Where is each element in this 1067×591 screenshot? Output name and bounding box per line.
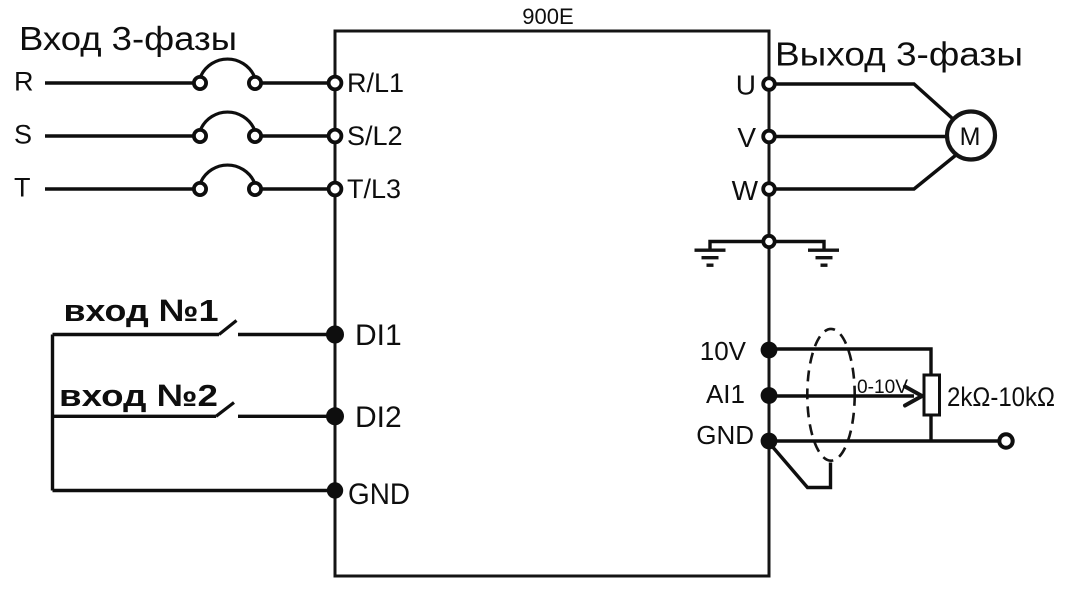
svg-text:M: M [960, 123, 981, 151]
wire U to motor [775, 84, 953, 119]
svg-text:DI2: DI2 [355, 401, 402, 434]
earth terminal node [763, 236, 774, 247]
wire DI2 left [53, 415, 217, 418]
svg-text:0-10V: 0-10V [857, 377, 908, 398]
wire earth right [775, 242, 824, 250]
svg-text:V: V [737, 122, 756, 153]
wire DI1 left [53, 333, 220, 336]
terminal DI2 [326, 407, 344, 425]
ground symbol right [808, 250, 839, 265]
potentiometer RP1 [924, 375, 940, 415]
wire DI1 right [238, 333, 335, 336]
switch S2 lever [216, 403, 234, 417]
terminal T/L3 [329, 183, 342, 196]
wire T to breaker [45, 187, 194, 190]
wire potentiometer bottom [929, 415, 932, 441]
svg-text:вход №2: вход №2 [59, 378, 218, 413]
switch S1 lever [219, 321, 237, 335]
wire common return (left bus) [51, 335, 54, 491]
arrow head [905, 387, 922, 406]
wire shield drain to GND [771, 445, 831, 488]
wire S to breaker [45, 134, 194, 137]
svg-text:Вход 3-фазы: Вход 3-фазы [19, 20, 237, 57]
svg-text:W: W [732, 175, 759, 206]
wire AI1 wiper arrow [769, 394, 914, 397]
inverter box U1 (900E drive outline) [335, 31, 769, 576]
motor M1 [947, 112, 995, 160]
wire W to motor [775, 155, 956, 189]
wire R to breaker [45, 81, 194, 84]
open terminal circle [999, 434, 1012, 447]
wire earth left [710, 242, 763, 250]
terminal R/L1 [329, 77, 342, 90]
svg-text:AI1: AI1 [706, 379, 745, 409]
breaker pole S [194, 112, 261, 142]
breaker pole T [194, 165, 261, 195]
wire breaker S to terminal [262, 134, 329, 137]
svg-text:S: S [14, 120, 32, 150]
svg-text:GND: GND [348, 478, 410, 511]
svg-text:вход №1: вход №1 [64, 293, 219, 328]
svg-text:T/L3: T/L3 [347, 174, 401, 204]
wire DI2 right [238, 415, 335, 418]
wire GND to open end [769, 439, 998, 442]
svg-text:S/L2: S/L2 [347, 121, 403, 151]
svg-text:R: R [14, 67, 34, 97]
wire GND digital [53, 489, 336, 492]
shield ellipse (screened cable) [807, 329, 854, 461]
svg-text:U: U [736, 70, 756, 101]
wire V to motor [775, 135, 949, 138]
svg-text:T: T [14, 173, 31, 203]
svg-text:R/L1: R/L1 [347, 68, 404, 98]
breaker pole R (contact circles + arc) [194, 59, 261, 89]
svg-text:10V: 10V [700, 336, 747, 366]
terminal DI1 [326, 326, 344, 344]
wire breaker R to terminal [262, 81, 329, 84]
wire breaker T to terminal [262, 187, 329, 190]
svg-text:DI1: DI1 [355, 319, 402, 352]
svg-text:Выход 3-фазы: Выход 3-фазы [775, 36, 1023, 73]
ground symbol left [695, 250, 726, 265]
svg-text:GND: GND [696, 420, 754, 450]
svg-text:900E: 900E [522, 4, 573, 29]
svg-text:2kΩ-10kΩ: 2kΩ-10kΩ [947, 382, 1055, 412]
terminal S/L2 [329, 130, 342, 143]
wire 10V to potentiometer top [769, 349, 931, 375]
terminal GND digital [327, 482, 343, 498]
